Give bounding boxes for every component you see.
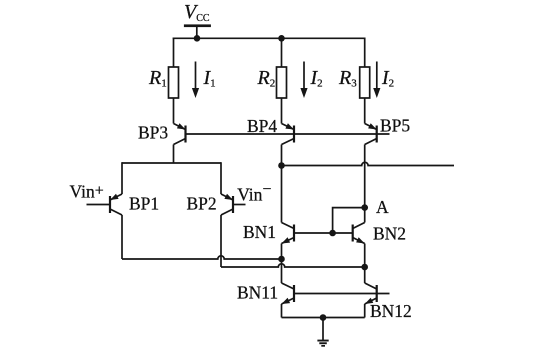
svg-text:BN1: BN1 xyxy=(243,222,276,242)
wire line B with hop over BN1 emitter wire xyxy=(221,264,365,267)
wire BP4 collector to BN1 collector xyxy=(281,145,283,223)
wire BP3 collector to tail rail xyxy=(173,145,175,164)
wire BP2 collector leg xyxy=(220,215,222,267)
transistor BP2 xyxy=(221,194,233,215)
transistor BN1 xyxy=(282,223,295,244)
wire base tee up to node A xyxy=(333,208,365,233)
wire tail rail left leg to BP1 emitter xyxy=(121,162,123,194)
transistor BN12 xyxy=(365,283,377,304)
wire BN12 emitter to bottom rail xyxy=(364,304,366,318)
wire BN11 emitter to bottom rail xyxy=(281,304,283,318)
wire BP5 collector to BN2 collector xyxy=(364,145,366,223)
node line-A tee xyxy=(278,256,285,263)
svg-text:I2: I2 xyxy=(381,67,394,90)
node BN base tee xyxy=(329,230,336,237)
transistor BP4 xyxy=(282,123,295,144)
wire BN11-BN12 base line xyxy=(294,293,390,295)
wire BP1 collector leg xyxy=(121,215,123,259)
wire BP1 base lead xyxy=(87,204,111,206)
svg-text:Vin−: Vin− xyxy=(237,181,271,205)
svg-text:BN11: BN11 xyxy=(237,283,278,303)
node output junction xyxy=(278,162,285,169)
svg-text:BP5: BP5 xyxy=(380,116,410,136)
svg-text:A: A xyxy=(376,197,389,217)
svg-text:BN12: BN12 xyxy=(370,301,412,321)
wire base rail BP3-BP4-BP5 xyxy=(186,133,390,135)
wire ground stem xyxy=(322,318,324,341)
wire bottom rail xyxy=(282,317,365,319)
wire rail to R3 xyxy=(364,38,366,68)
resistor R3 xyxy=(360,67,370,98)
wire tail rail right leg to BP2 emitter xyxy=(220,162,222,194)
svg-text:I1: I1 xyxy=(203,67,216,90)
wire line A with hop over BP2 collector xyxy=(122,256,282,259)
wire rail to R2 xyxy=(281,38,283,67)
svg-text:VCC: VCC xyxy=(184,1,210,24)
wire output line with hop over BP5 collector xyxy=(282,162,455,165)
transistor BN11 xyxy=(282,283,295,304)
svg-text:BN2: BN2 xyxy=(373,224,406,244)
svg-text:BP2: BP2 xyxy=(187,194,217,214)
wire BN1 emitter down to BN11 collector xyxy=(281,244,283,284)
wire Vcc stem xyxy=(196,27,198,38)
svg-text:BP1: BP1 xyxy=(129,194,159,214)
svg-text:Vin+: Vin+ xyxy=(70,182,104,202)
wire R2 to BP4 emitter xyxy=(281,98,283,124)
node A junction dot xyxy=(361,204,368,211)
node line-B tee xyxy=(361,264,368,271)
wire BN2 emitter down to BN12 collector xyxy=(364,244,366,284)
resistor R1 xyxy=(169,67,179,98)
wire BN1-BN2 base line xyxy=(294,232,353,234)
svg-text:R1: R1 xyxy=(148,67,167,90)
ground symbol xyxy=(317,340,328,347)
node rail-R2 junction xyxy=(278,35,285,42)
wire BP2 base lead xyxy=(233,204,246,206)
node ground tee xyxy=(320,314,327,321)
svg-text:BP3: BP3 xyxy=(138,123,168,143)
svg-text:I2: I2 xyxy=(310,67,323,90)
wire top rail xyxy=(173,37,365,39)
wire R1 to BP3 emitter xyxy=(173,98,175,124)
transistor BP3 xyxy=(174,123,186,144)
wire tail rail xyxy=(122,162,221,164)
transistor BN2 xyxy=(353,223,365,244)
svg-text:R2: R2 xyxy=(257,67,276,90)
wire R3 to BP5 emitter xyxy=(364,98,366,124)
current arrow I2 (right) xyxy=(376,62,378,90)
svg-text:BP4: BP4 xyxy=(247,116,277,136)
Vcc supply bar xyxy=(184,24,211,27)
wire rail to R1 xyxy=(173,38,175,68)
current arrow I1 xyxy=(195,62,197,90)
transistor BP1 xyxy=(110,194,122,215)
transistor BP5 xyxy=(365,123,377,144)
resistor R2 xyxy=(277,67,287,98)
current arrow I2 (middle) xyxy=(303,62,305,90)
svg-text:R3: R3 xyxy=(338,67,357,90)
node Vcc junction xyxy=(194,35,201,42)
